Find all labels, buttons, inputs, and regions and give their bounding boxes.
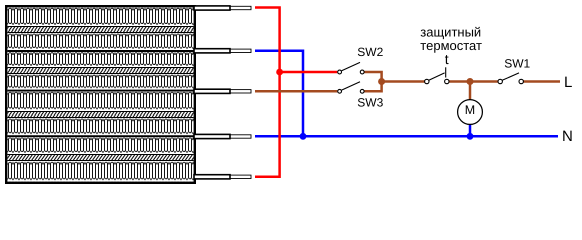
heater terminal 2 xyxy=(194,49,251,53)
heater block frame xyxy=(6,6,195,183)
wire: red branch to SW2 xyxy=(280,71,338,74)
svg-text:t: t xyxy=(445,51,449,67)
heating element coil row 7 xyxy=(8,137,194,154)
heater terminal 3 xyxy=(194,89,251,93)
node: blue junction motor/N xyxy=(467,133,474,140)
svg-text:термостат: термостат xyxy=(420,38,482,53)
mica insulation strip 4 xyxy=(8,155,194,161)
heating element coil row 2 xyxy=(8,33,194,50)
mica insulation strip 3 xyxy=(8,112,194,118)
svg-text:M: M xyxy=(465,103,475,117)
node: blue junction at x303 on N line xyxy=(300,133,307,140)
switch SW3 xyxy=(338,82,364,94)
mica plate line 1 xyxy=(8,50,194,52)
svg-text:SW2: SW2 xyxy=(357,45,383,59)
mica insulation strip 2 xyxy=(8,68,194,74)
heating element coil row 4 xyxy=(8,74,194,89)
node: red junction on red riser xyxy=(276,69,283,76)
svg-text:SW3: SW3 xyxy=(357,96,383,110)
heater terminal 1 xyxy=(194,6,251,10)
wire: red loop terminal 1 to terminal 5 xyxy=(255,8,280,177)
wire: blue neutral N line from terminal 4 to right xyxy=(255,135,558,138)
heating element coil row 6 xyxy=(8,118,194,135)
node: brown junction to motor xyxy=(467,78,474,85)
wire: brown drop to motor xyxy=(469,82,472,101)
mica plate line 3 xyxy=(8,135,194,137)
wire: brown merge to thermostat xyxy=(382,80,425,83)
svg-text:L: L xyxy=(564,74,572,91)
heater terminal 5 xyxy=(194,175,251,179)
mica plate line 2 xyxy=(8,90,194,92)
thermostat actuator rod xyxy=(445,67,447,77)
heating element coil row 3 xyxy=(8,52,194,67)
wire: brown thermostat to SW1 xyxy=(449,80,498,83)
heating element coil row 1 xyxy=(8,8,194,27)
switch SW1 xyxy=(498,73,523,84)
svg-text:SW1: SW1 xyxy=(504,57,530,71)
wire: brown from terminal 3 to SW3 xyxy=(255,90,337,93)
node: brown junction at merge xyxy=(378,78,385,85)
heating element coil row 8 xyxy=(8,162,194,182)
wire: brown merge of SW2/SW3 outputs xyxy=(364,72,381,91)
label защитный термостат xyxy=(420,24,482,53)
wire: blue motor to neutral xyxy=(469,124,472,137)
heating element coil row 5 xyxy=(8,92,194,111)
mica insulation strip 1 xyxy=(8,27,194,33)
switch SW2 xyxy=(338,62,364,74)
svg-text:N: N xyxy=(562,128,573,145)
heater terminal 4 xyxy=(194,134,251,138)
motor M xyxy=(458,100,483,125)
wire: brown SW1 to L xyxy=(523,80,560,83)
thermostat contact xyxy=(425,73,449,84)
wire: blue from terminal 2 down to neutral xyxy=(255,51,303,137)
